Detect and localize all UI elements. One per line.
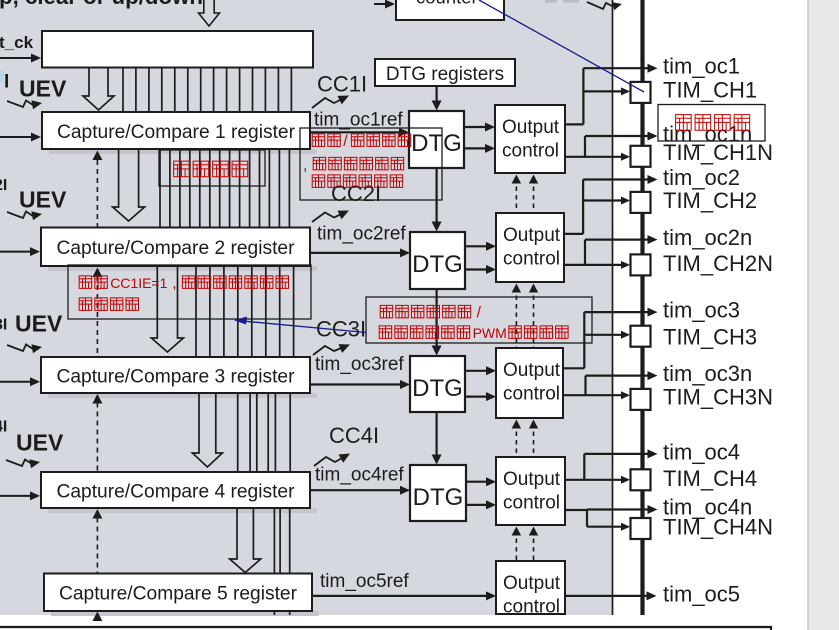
svg-text:TIM_CH4: TIM_CH4 xyxy=(663,466,757,491)
wire: input arrow into CC3 register xyxy=(0,381,32,383)
svg-text:Capture/Compare 4 register: Capture/Compare 4 register xyxy=(57,481,296,502)
svg-text:tim_oc3n: tim_oc3n xyxy=(663,361,752,386)
svg-text:/: / xyxy=(477,305,482,322)
svg-text:DTG: DTG xyxy=(412,375,463,402)
pale blue mark left edge ch1 xyxy=(0,71,4,83)
wire: DTG registers to DTG1 xyxy=(436,86,438,101)
channel 5 output wire tim_oc5 xyxy=(565,595,649,597)
svg-text:tim_oc2: tim_oc2 xyxy=(663,165,740,190)
bus lines: prescaler to CC1 xyxy=(122,68,124,112)
blue annotation arrow to bus lines xyxy=(237,321,366,333)
wire: DTG3 to output control arrows xyxy=(465,370,488,372)
wire: tim_oc5ref arrow xyxy=(312,595,488,597)
svg-text:Capture/Compare 3 register: Capture/Compare 3 register xyxy=(57,366,296,387)
blue annotation line to TIM_CH1 xyxy=(479,0,644,92)
channel 4 output wires xyxy=(565,479,622,481)
svg-text:Output: Output xyxy=(503,573,561,594)
box: Output control channel 5 xyxy=(496,561,565,614)
channel 1 output wires xyxy=(565,123,583,125)
svg-text:CC4I: CC4I xyxy=(329,423,379,448)
svg-text:control: control xyxy=(503,248,560,269)
register box shadows xyxy=(49,149,317,154)
svg-text:Output: Output xyxy=(503,469,561,490)
box: Capture/Compare 3 register xyxy=(41,357,310,393)
svg-text:Output: Output xyxy=(502,117,560,138)
svg-text:DTG registers: DTG registers xyxy=(386,64,504,85)
pin square TIM_CH4N xyxy=(631,518,651,539)
svg-text:CC1IE=1: CC1IE=1 xyxy=(110,275,167,291)
svg-text:TIM_CH4N: TIM_CH4N xyxy=(663,515,773,540)
svg-text:control: control xyxy=(503,492,560,513)
svg-text:Output: Output xyxy=(503,225,561,246)
box: DTG registers xyxy=(375,59,515,86)
zigzag interrupt arrow CC2I xyxy=(312,213,342,223)
svg-text:TIM_CH2: TIM_CH2 xyxy=(663,188,757,213)
wire: hollow arrow into CC3 register xyxy=(151,266,183,352)
box: Output control channel 4 xyxy=(496,457,565,525)
pin square TIM_CH1 xyxy=(631,82,651,103)
svg-text:UEV: UEV xyxy=(15,311,63,337)
wire: diagram right border line xyxy=(612,0,614,615)
pin square TIM_CH4 xyxy=(631,469,651,490)
pin square TIM_CH2N xyxy=(631,254,651,275)
svg-text:DTG: DTG xyxy=(412,251,463,278)
svg-text:UEV: UEV xyxy=(19,187,67,213)
pin square TIM_CH3N xyxy=(631,389,651,410)
svg-text:UEV: UEV xyxy=(16,430,64,456)
wire: tim_oc3ref arrow xyxy=(310,383,402,385)
box: Capture/Compare 1 register xyxy=(42,112,310,149)
box: DTG (dead-time generator) channel 4 xyxy=(410,465,466,521)
svg-text:Capture/Compare 5 register: Capture/Compare 5 register xyxy=(59,584,298,605)
svg-text:control: control xyxy=(503,383,560,404)
channel 2 output wires xyxy=(564,233,583,235)
wire: tim_oc1ref arrow xyxy=(310,131,401,133)
svg-text:p, clear or up/down: p, clear or up/down xyxy=(0,0,203,9)
wire: hollow arrow into CC5 register xyxy=(230,508,261,573)
svg-text:TIM_CH1: TIM_CH1 xyxy=(663,78,757,103)
svg-text:TIM_CH3N: TIM_CH3N xyxy=(663,385,773,410)
prescaler box (unlabeled) xyxy=(42,31,313,68)
svg-text:tim_oc2n: tim_oc2n xyxy=(663,225,752,250)
zigzag UEV arrow ch3 xyxy=(7,345,33,352)
annotation box: ru guo CC1IE=1 ... xyxy=(68,265,311,319)
box: DTG (dead-time generator) channel 2 xyxy=(410,232,465,289)
svg-text:DTG: DTG xyxy=(411,130,462,157)
wire: DTG4 to output control arrows xyxy=(466,481,488,483)
annotation text line3 xyxy=(312,175,403,188)
wire: tim_oc4ref arrow xyxy=(310,489,402,491)
svg-text:PWM: PWM xyxy=(473,325,507,341)
svg-text:tim_oc3: tim_oc3 xyxy=(663,298,740,323)
annotation text line2 xyxy=(313,157,404,170)
svg-text:Capture/Compare 1 register: Capture/Compare 1 register xyxy=(57,122,296,143)
svg-text:4I: 4I xyxy=(0,419,7,436)
wire: hollow arrow into CC2 register xyxy=(113,149,145,221)
counter box (cut off at top) xyxy=(396,0,504,20)
wire: hollow arrow into CC4 register xyxy=(192,393,222,467)
wire: tim_oc2ref arrow xyxy=(310,252,402,254)
pin square TIM_CH3 xyxy=(631,326,651,347)
zigzag interrupt arrow CC3I xyxy=(313,346,342,355)
bus lines: CC3 to CC4 xyxy=(237,393,239,472)
svg-text:tim_oc5: tim_oc5 xyxy=(663,581,740,606)
svg-text:tim_oc3ref: tim_oc3ref xyxy=(315,354,404,375)
bus lines: CC1 to CC2 xyxy=(159,149,161,228)
annotation text hu bu tong dao xyxy=(676,115,750,131)
svg-text:t_ck: t_ck xyxy=(0,33,34,52)
wire: DTG1 to DTG2 xyxy=(436,168,438,222)
svg-text:Capture/Compare 2 register: Capture/Compare 2 register xyxy=(57,238,296,259)
svg-text:,: , xyxy=(172,275,176,292)
box: DTG (dead-time generator) channel 3 xyxy=(410,356,465,412)
zigzag UEV arrow ch2 xyxy=(7,212,33,219)
wire: DTG2 to DTG3 xyxy=(436,289,438,346)
svg-text:control: control xyxy=(503,596,560,617)
annotation box: jue ding shu chu mo shi xyxy=(366,297,592,343)
box: DTG (dead-time generator) channel 1 xyxy=(409,111,464,168)
svg-text:DTG: DTG xyxy=(413,484,464,511)
svg-text:tim_oc2ref: tim_oc2ref xyxy=(317,224,406,245)
annotation text jueding line2 xyxy=(379,326,470,339)
dashed feedback line with up arrows (left) xyxy=(96,160,98,268)
bus lines: CC4 to CC5 xyxy=(273,508,275,574)
annotation text ruguo line1 xyxy=(79,276,107,289)
annotation box: han bi jiao qi xyxy=(159,150,265,186)
svg-text:/: / xyxy=(343,133,348,150)
wire: DTG1 to output control arrows xyxy=(464,126,487,128)
svg-text:I: I xyxy=(4,72,9,93)
wire: t_ck arrow into prescaler xyxy=(0,57,33,59)
zigzag interrupt arrow CC1I xyxy=(312,98,342,108)
svg-text:Output: Output xyxy=(503,360,561,381)
svg-text:TIM_CH3: TIM_CH3 xyxy=(663,325,757,350)
annotation text ruguo line2 xyxy=(79,298,138,311)
wire: DTG2 to output control arrows xyxy=(465,245,488,247)
annotation text han bi jiao qi xyxy=(174,161,248,177)
svg-text:TIM_CH1N: TIM_CH1N xyxy=(663,140,773,165)
bus line stubs below CC5 xyxy=(273,611,275,615)
svg-text:CC1I: CC1I xyxy=(317,72,367,97)
svg-text:tim_oc4ref: tim_oc4ref xyxy=(315,465,404,486)
wire: hollow arrow into CC1 register xyxy=(83,68,114,110)
svg-text:counter: counter xyxy=(416,0,478,8)
wire: input arrow into CC1 register xyxy=(0,136,33,138)
svg-text:2I: 2I xyxy=(0,177,7,194)
box: Output control channel 1 xyxy=(495,105,565,173)
zigzag UEV arrow ch1 xyxy=(7,101,33,108)
svg-text:3I: 3I xyxy=(0,317,7,334)
zigzag event arrow (top right) xyxy=(587,2,612,9)
bottom page box top edge xyxy=(0,627,771,630)
wire: DTG3 to DTG4 xyxy=(436,412,438,455)
svg-text:,: , xyxy=(303,157,307,174)
box: Capture/Compare 5 register xyxy=(44,574,312,612)
pin square TIM_CH1N xyxy=(631,146,651,167)
annotation text jueding line1 xyxy=(380,305,471,318)
bus lines: CC2 to CC3 xyxy=(195,266,197,357)
annotation box: hu bu tong dao xyxy=(658,105,765,142)
svg-text:tim_oc1: tim_oc1 xyxy=(663,54,740,79)
annotation text line1 xyxy=(312,134,340,147)
wire: MCU pin boundary thick line xyxy=(640,0,644,615)
box: Capture/Compare 4 register xyxy=(41,472,310,508)
channel 3 output wires xyxy=(563,367,584,369)
svg-text:UEV: UEV xyxy=(19,76,67,102)
svg-text:TIM_CH2N: TIM_CH2N xyxy=(663,251,773,276)
box: Output control channel 3 xyxy=(496,348,563,418)
right page gutter strip xyxy=(808,0,839,630)
box: Capture/Compare 2 register xyxy=(41,228,310,267)
zigzag interrupt arrow CC4I xyxy=(314,457,343,466)
wire: hollow arrow into prescaler box xyxy=(199,0,220,26)
wire: arrow into counter xyxy=(374,3,387,5)
wire: input arrow into CC2 register xyxy=(0,251,32,253)
box: Output control channel 2 xyxy=(496,213,564,282)
svg-text:control: control xyxy=(502,140,559,161)
dashed arrows between output control blocks xyxy=(515,187,517,214)
zigzag UEV arrow ch4 xyxy=(6,460,32,467)
annotation box: you xiao / wu xiao xin hao ... xyxy=(300,128,442,200)
wire: input arrow into CC4 register xyxy=(0,495,32,497)
faint cut-off gray text near top right xyxy=(545,0,557,3)
pin square TIM_CH2 xyxy=(631,192,651,213)
svg-text:tim_oc5ref: tim_oc5ref xyxy=(320,571,409,592)
svg-text:tim_oc4: tim_oc4 xyxy=(663,439,740,464)
